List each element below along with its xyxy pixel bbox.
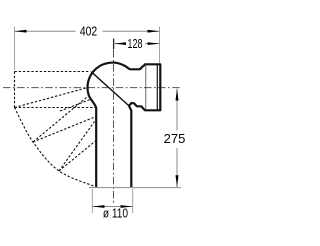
dim 275 arrow up: [176, 89, 179, 101]
dim 275 arrow down: [176, 175, 179, 187]
dim o110 line: [93, 206, 133, 208]
swivel position 180 deg: top edge dashed: [15, 71, 91, 73]
dim o110 extension line right: [132, 189, 134, 213]
dim 402 extension line right: [159, 27, 161, 64]
dim o110 extension line left: [91, 189, 93, 213]
swivel position 180 deg: bottom edge dashed: [15, 107, 97, 109]
swivel position 237 deg lower edge: [59, 141, 96, 172]
svg-text:128: 128: [127, 37, 142, 51]
dim 128 arrow right: [148, 42, 160, 45]
dim 275 line: [176, 89, 178, 131]
centerline vertical (pipe axis): [113, 50, 115, 204]
dim 402 line: [15, 30, 76, 32]
swivel position 215 deg upper edge: [33, 95, 90, 142]
swivel position 180 deg: end face dashed: [14, 72, 16, 108]
dim 402 arrow right: [148, 30, 160, 33]
dim o110 arrow right: [121, 205, 133, 208]
extension line bottom right (pipe end): [89, 187, 181, 189]
svg-text:275: 275: [164, 131, 186, 146]
centerline horizontal (outlet axis): [3, 87, 182, 89]
elbow body outline: [88, 63, 161, 187]
svg-text:ø 110: ø 110: [103, 207, 129, 221]
dim 128 line: [114, 43, 127, 45]
dim 402 extension line left: [14, 27, 16, 71]
dim o110 arrow left: [93, 205, 105, 208]
swivel fan short line: [60, 100, 90, 112]
swivel sweep arc dashed: [15, 108, 96, 187]
socket left edge line: [145, 65, 147, 111]
swivel position 215 deg lower edge: [33, 117, 96, 143]
svg-text:402: 402: [80, 24, 97, 38]
dim 128 arrow left: [114, 42, 126, 45]
swivel fan line to dome left: [15, 87, 89, 107]
swivel position 237 deg upper edge: [59, 122, 95, 172]
miter joint diagonal: [91, 72, 129, 106]
dim 402 arrow left: [15, 30, 27, 33]
socket inner rim line: [156, 64, 158, 110]
dim 128 tick bar: [113, 39, 115, 50]
